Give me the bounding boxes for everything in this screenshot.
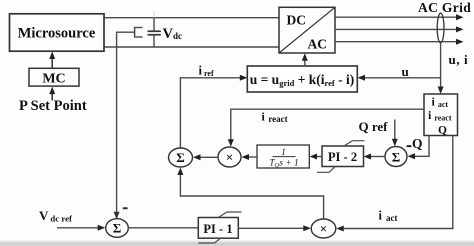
multiplier circle active [311, 219, 336, 238]
svg-text:Q ref: Q ref [359, 119, 389, 134]
label Vdc [163, 26, 182, 42]
Microsource block [10, 14, 105, 51]
label minus at Vdc summing junction [123, 207, 128, 209]
label Q ref [359, 119, 389, 134]
converter block DC/AC U1 [279, 7, 335, 53]
wire: active current path from bottom multiplier up into summing junction [177, 168, 323, 220]
svg-text:u: u [402, 64, 409, 79]
svg-text:MC: MC [42, 72, 65, 87]
svg-text:PI - 1: PI - 1 [203, 222, 232, 236]
svg-text:TQs + 1: TQs + 1 [269, 159, 299, 170]
wire: iact from block down to bottom multiplier [336, 136, 453, 232]
arrow MC to Microsource [49, 52, 55, 69]
multiplier circle reactive [218, 147, 241, 167]
arrow multiplier to iref summing junction [193, 154, 218, 160]
arrow control law up to converter [302, 53, 308, 66]
svg-text:Σ: Σ [113, 221, 122, 236]
capacitor C (DC-link) vertical wire [148, 11, 161, 47]
arrow Q summing junction to PI-2 [364, 154, 385, 160]
summing junction iref [169, 148, 193, 167]
summing junction Vdc [106, 219, 129, 238]
arrow PI-2 to lag filter [310, 154, 322, 160]
wire: iref from summing junction to control law [180, 75, 247, 150]
svg-text:u, i: u, i [449, 52, 469, 67]
svg-text:×: × [226, 150, 233, 165]
arrow PI-1 to bottom multiplier [238, 225, 310, 231]
bottom scan shadow band [0, 240, 474, 246]
svg-text:Σ: Σ [176, 150, 185, 165]
control law block: u = ugrid + k(iref - i) [247, 66, 357, 92]
label u [402, 64, 409, 79]
svg-text:Q: Q [412, 136, 423, 151]
svg-text:AC Grid: AC Grid [418, 0, 471, 15]
svg-text:u = ugrid + k(iref - i): u = ugrid + k(iref - i) [250, 72, 355, 88]
wire: ireact from block to multiplier [228, 109, 424, 147]
arrow lag filter to multiplier [242, 154, 258, 160]
svg-text:AC: AC [308, 37, 328, 52]
label iref [199, 64, 214, 79]
wire: AC phase line 2 with arrow to grid [335, 26, 464, 32]
svg-text:Σ: Σ [392, 150, 401, 165]
label Vdc ref [39, 208, 73, 224]
wire: bottom DC rail from Microsource to converter [104, 46, 279, 48]
svg-text:P Set Point: P Set Point [19, 98, 87, 114]
PI-2 block with saturation marks [317, 141, 365, 173]
svg-text:Microsource: Microsource [18, 26, 96, 42]
label P Set Point [19, 98, 87, 114]
svg-text:DC: DC [287, 13, 307, 28]
svg-text:Q: Q [438, 125, 447, 137]
wire: AC phase line 1 with arrow to grid [335, 14, 464, 20]
lag filter block 1/(TQ s+1) [257, 145, 309, 169]
wire: u,i measurement down to i/Q block [438, 43, 444, 95]
MC block [29, 68, 79, 86]
i/Q measurement block [424, 94, 458, 137]
voltage tap bracket across capacitor [134, 27, 143, 37]
arrow Q ref into summing junction [392, 120, 398, 147]
wire: AC phase line 3 with arrow to grid [335, 39, 464, 45]
arrow P Set Point to MC [49, 87, 55, 101]
PI-1 block with saturation marks [198, 212, 241, 243]
measurement ellipse on AC lines [437, 13, 444, 43]
svg-text:PI - 2: PI - 2 [328, 150, 357, 164]
label AC Grid [418, 0, 471, 15]
label Q [412, 136, 423, 151]
summing junction Q [385, 147, 407, 167]
wire: Vdc measurement down to summing junction [114, 32, 135, 219]
wire: Vdc summing junction to PI-1 [128, 227, 198, 229]
wire: top DC rail from Microsource to converter [104, 17, 279, 19]
label minus at Q summing junction [407, 145, 412, 147]
label iact [379, 209, 398, 224]
label ireact [262, 110, 288, 125]
wire: u feedback into control law box [358, 75, 441, 81]
wire: Q from block to summing junction [408, 136, 430, 160]
label u, i [449, 52, 469, 67]
arrow Vdc ref into summing junction [57, 225, 105, 231]
svg-text:×: × [320, 221, 327, 236]
